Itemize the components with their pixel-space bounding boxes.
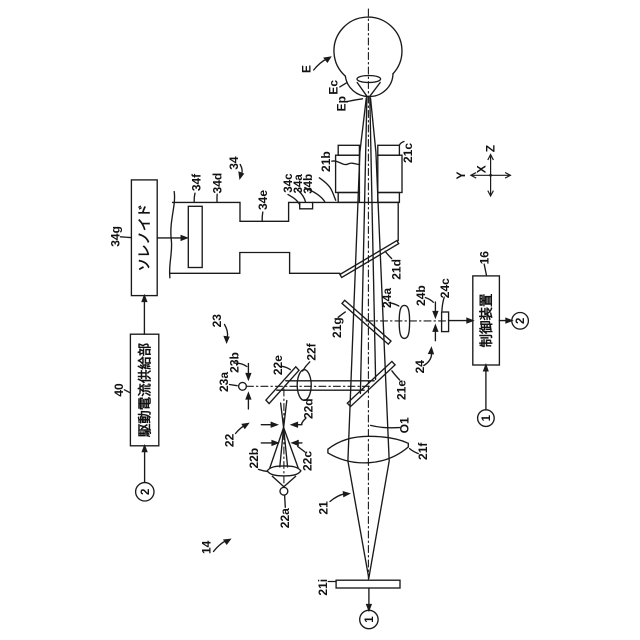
- svg-text:23b: 23b: [227, 352, 241, 373]
- svg-text:22a: 22a: [278, 508, 292, 528]
- svg-text:制御装置: 制御装置: [478, 293, 494, 347]
- svg-text:23a: 23a: [217, 372, 231, 392]
- svg-text:22: 22: [223, 433, 237, 447]
- svg-text:24b: 24b: [414, 285, 428, 306]
- svg-text:2: 2: [140, 489, 152, 495]
- svg-text:21c: 21c: [401, 143, 415, 163]
- svg-text:22b: 22b: [247, 448, 261, 469]
- svg-text:2: 2: [515, 318, 527, 324]
- svg-text:34e: 34e: [256, 190, 270, 210]
- svg-text:24a: 24a: [380, 288, 394, 308]
- svg-text:Ec: Ec: [327, 80, 341, 95]
- svg-text:E: E: [300, 65, 314, 73]
- svg-text:駆動電流供給部: 駆動電流供給部: [136, 342, 152, 437]
- svg-text:24: 24: [413, 360, 427, 374]
- svg-text:22c: 22c: [301, 451, 315, 471]
- svg-text:34g: 34g: [108, 226, 122, 247]
- svg-text:16: 16: [478, 251, 492, 265]
- svg-text:21b: 21b: [319, 151, 333, 172]
- svg-text:34: 34: [227, 156, 241, 170]
- svg-text:21g: 21g: [330, 317, 344, 338]
- svg-text:40: 40: [112, 383, 126, 397]
- svg-text:24c: 24c: [438, 278, 452, 298]
- svg-text:14: 14: [200, 540, 214, 554]
- svg-text:34b: 34b: [303, 174, 315, 194]
- svg-text:34f: 34f: [190, 173, 204, 191]
- svg-text:21: 21: [317, 501, 331, 515]
- svg-text:1: 1: [481, 414, 493, 421]
- svg-text:23: 23: [210, 314, 224, 328]
- svg-text:22f: 22f: [305, 342, 319, 360]
- svg-text:34d: 34d: [211, 173, 225, 194]
- svg-text:Ep: Ep: [335, 96, 349, 111]
- svg-text:X: X: [475, 165, 489, 173]
- svg-text:Z: Z: [484, 145, 498, 152]
- svg-text:O1: O1: [398, 417, 412, 433]
- svg-text:21e: 21e: [394, 380, 408, 400]
- svg-text:21i: 21i: [316, 579, 330, 596]
- svg-text:ソレノイド: ソレノイド: [137, 204, 152, 272]
- svg-text:22e: 22e: [271, 355, 285, 375]
- svg-text:21f: 21f: [416, 442, 430, 460]
- svg-text:1: 1: [364, 616, 376, 623]
- svg-text:21d: 21d: [390, 259, 404, 280]
- svg-text:22d: 22d: [302, 398, 316, 419]
- svg-text:Y: Y: [454, 171, 468, 179]
